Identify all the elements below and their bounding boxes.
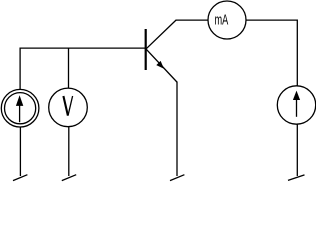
- voltmeter V1 label V: [63, 96, 72, 116]
- wire base bus horizontal: [20, 47, 146, 49]
- wire drop to voltmeter V1: [68, 48, 70, 89]
- ground left: [13, 175, 27, 181]
- current source I1 inner circle: [5, 93, 36, 124]
- wire emitter to ground: [176, 82, 178, 177]
- ground right: [288, 175, 305, 181]
- transistor Q1 collector line: [146, 20, 176, 49]
- svg-text:mA: mA: [215, 11, 229, 28]
- ammeter M1 circle: [208, 1, 246, 39]
- current source I2 arrow: [293, 91, 300, 117]
- transistor Q1 emitter arrowhead: [156, 61, 164, 69]
- current source I2 circle: [277, 86, 315, 124]
- wire I2 to ground: [296, 124, 298, 176]
- wire V1 to ground: [68, 127, 70, 176]
- transistor Q1 base bar: [145, 29, 147, 70]
- current source I1 outer circle: [1, 89, 39, 127]
- wire collector to ammeter: [176, 19, 209, 21]
- voltmeter V1 circle: [49, 88, 88, 127]
- ground voltmeter: [62, 175, 76, 181]
- current source I1 arrow: [16, 95, 23, 122]
- wire ammeter to right corner: [246, 19, 297, 21]
- ground emitter: [170, 175, 184, 181]
- wire right drop to current source I2: [296, 20, 298, 87]
- ammeter M1 label mA: [215, 11, 229, 28]
- wire left drop to current source I1: [19, 48, 21, 90]
- transistor Q1 emitter line: [146, 49, 177, 82]
- wire I1 to ground: [19, 127, 21, 176]
